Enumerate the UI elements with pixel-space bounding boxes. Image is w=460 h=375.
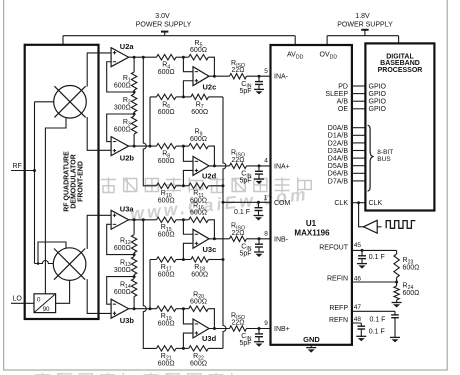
wire R8 to R9 — [176, 145, 189, 147]
node mixer Q top tap — [37, 262, 40, 265]
wire U2d minus input — [183, 146, 193, 161]
svg-text:D0A/B: D0A/B — [328, 125, 349, 132]
wire 1.8V rail — [327, 35, 399, 37]
resistor R15 600 — [157, 217, 177, 222]
node REFOUT cap tap — [361, 249, 364, 252]
wire CLK to clock buffer — [359, 203, 364, 227]
wire OE to GPIO — [352, 108, 366, 110]
ground R24 — [392, 302, 402, 304]
wire R18 to COM bus — [209, 259, 224, 261]
wire LO 90deg to mixer Q — [56, 281, 70, 304]
node Cin tap — [258, 75, 261, 78]
svg-text:D7A/B: D7A/B — [328, 178, 349, 185]
wire R16 to U3c output — [208, 220, 214, 239]
svg-text:U2c: U2c — [203, 83, 217, 92]
svg-text:0.1 F: 0.1 F — [369, 254, 385, 261]
wire RF to mixer Q (hop over LO) — [35, 261, 54, 264]
svg-text:D4A/B: D4A/B — [328, 156, 349, 163]
wire U2d output — [209, 165, 230, 167]
svg-text:U3d: U3d — [202, 334, 217, 343]
wire string top — [133, 57, 135, 72]
wire crossfeed U3a to R21 — [143, 220, 156, 349]
resistor R9 600 feedback — [189, 143, 209, 148]
wire R17 to R18 — [176, 259, 191, 261]
wire A/B to GPIO — [352, 100, 366, 102]
node COM cap tap — [257, 201, 260, 204]
svg-text:600Ω: 600Ω — [190, 136, 207, 143]
mixer I (top) — [54, 86, 87, 119]
wire R17 from U3b out — [150, 260, 157, 309]
svg-text:5: 5 — [264, 68, 268, 75]
wire R7 to COM bus — [209, 96, 224, 98]
node U3c feedback — [213, 237, 216, 240]
wire 1.8V to processor — [398, 36, 400, 44]
node U3d plus junction — [182, 347, 185, 350]
svg-text:600Ω: 600Ω — [403, 264, 420, 271]
svg-text:D2A/B: D2A/B — [328, 140, 349, 147]
node U3a out string — [133, 218, 136, 221]
phase shifter 0/90 box — [34, 294, 56, 313]
svg-text:600Ω: 600Ω — [191, 109, 208, 116]
wire U2a output — [129, 56, 157, 58]
resistor R7 600 — [191, 94, 209, 99]
svg-text:D5A/B: D5A/B — [328, 163, 349, 170]
resistor R22 600 — [189, 346, 209, 351]
svg-text:600Ω: 600Ω — [114, 126, 131, 133]
node U2b feedback tap — [133, 113, 136, 116]
node U2c plus junction — [182, 95, 185, 98]
wire D0A/B — [352, 127, 366, 129]
wire R21 to R22 — [176, 347, 189, 349]
op-amp U3c — [193, 229, 209, 248]
clock waveform symbol — [386, 221, 415, 229]
node U3c minus junction — [182, 218, 185, 221]
node Cin tap — [258, 164, 261, 167]
wire string mid2 — [133, 275, 135, 279]
resistor R14 600 — [131, 279, 136, 297]
capacitor 0.1uF COM — [258, 202, 260, 207]
wire D5A/B — [352, 165, 366, 167]
wire U3d output — [209, 328, 230, 330]
svg-text:U3a: U3a — [120, 205, 135, 214]
resistor R17 600 — [157, 257, 177, 262]
svg-text:8-BIT: 8-BIT — [377, 149, 393, 156]
capacitor Cin 5pF (U3c) — [258, 239, 260, 244]
resistor R13 300 — [131, 257, 136, 275]
1.8V supply terminal — [361, 29, 368, 31]
wire D4A/B — [352, 157, 366, 159]
wire SLEEP to GPIO — [352, 93, 366, 95]
svg-text:5pF: 5pF — [239, 340, 251, 347]
wire COM bus vertical (hops over U2d and U3d outputs) — [223, 97, 226, 349]
node U2a feedback tap — [133, 91, 136, 94]
8-bit bus brace — [368, 125, 373, 191]
wire string mid1 — [133, 253, 135, 257]
wire U3b feedback — [107, 277, 134, 305]
svg-text:REFOUT: REFOUT — [319, 244, 349, 251]
watermark clipped bottom row — [35, 374, 50, 375]
capacitor 0.1uF REFOUT — [361, 250, 363, 255]
svg-text:POWER SUPPLY: POWER SUPPLY — [136, 22, 192, 29]
svg-text:GPIO: GPIO — [369, 99, 387, 106]
wire R22 to COM bus — [208, 347, 223, 349]
wire string mid1 — [133, 90, 135, 94]
node U3a feedback tap — [133, 253, 136, 256]
svg-text:22Ω: 22Ω — [231, 320, 244, 327]
svg-text:0: 0 — [37, 297, 41, 304]
resistor Riso 22 (U3d) — [230, 326, 247, 331]
wire 3.0V to demodulator — [62, 36, 64, 45]
wire mixer Q output Q+ — [87, 215, 111, 249]
svg-text:U3b: U3b — [120, 316, 135, 325]
svg-text:PD: PD — [338, 83, 348, 90]
svg-text:DEMODULATOR: DEMODULATOR — [70, 154, 77, 209]
op-amp U2d — [193, 156, 209, 175]
wire CLK — [352, 202, 366, 204]
node U2b out string — [133, 145, 136, 148]
node COM bus R11 — [222, 184, 225, 187]
svg-text:47: 47 — [354, 304, 362, 311]
wire 3.0V to AVDD — [294, 36, 296, 45]
svg-text:REFP: REFP — [329, 305, 348, 312]
node RF split — [33, 169, 36, 172]
svg-text:600Ω: 600Ω — [191, 271, 208, 278]
resistor R4 600 — [157, 55, 177, 60]
svg-text:COM: COM — [274, 200, 291, 207]
node U3a out crossfeed — [142, 218, 145, 221]
resistor R8 600 — [157, 143, 177, 148]
node COM bus COM pin — [222, 201, 225, 204]
wire D3A/B — [352, 150, 366, 152]
wire REFN — [352, 323, 361, 326]
wire Riso to pin — [247, 165, 271, 167]
wire REFOUT — [352, 249, 397, 251]
op-amp U3b — [111, 299, 129, 318]
resistor Riso 22 (U2c) — [230, 74, 247, 79]
wire R4 to R5 — [176, 56, 189, 58]
svg-text:1.8V: 1.8V — [355, 13, 370, 20]
svg-text:REFIN: REFIN — [327, 276, 348, 283]
resistor R5 600 feedback — [189, 55, 209, 60]
svg-text:90: 90 — [43, 306, 50, 313]
svg-text:CLK: CLK — [369, 200, 383, 207]
wire R20 to U3d output — [208, 309, 214, 329]
svg-text:600Ω: 600Ω — [190, 210, 207, 217]
svg-text:600Ω: 600Ω — [114, 82, 131, 89]
svg-text:U1: U1 — [306, 219, 317, 228]
wire Riso to pin — [247, 238, 271, 240]
op-amp U2b — [111, 137, 129, 156]
wire D7A/B — [352, 180, 366, 182]
svg-text:U3c: U3c — [203, 245, 217, 254]
svg-text:600Ω: 600Ω — [158, 360, 175, 367]
svg-text:OE: OE — [338, 106, 348, 113]
svg-text:600Ω: 600Ω — [190, 299, 207, 306]
wire U2c minus input — [183, 57, 193, 71]
node U3d minus junction — [182, 307, 185, 310]
wire U2a feedback — [107, 62, 134, 92]
svg-text:U2b: U2b — [120, 153, 135, 162]
wire D1A/B — [352, 134, 366, 136]
wire R19 to R20 — [176, 308, 189, 310]
wire string bottom — [133, 134, 135, 146]
node U2b out R6 branch — [149, 145, 152, 148]
wire U2c output — [209, 75, 230, 77]
svg-text:INB+: INB+ — [274, 326, 290, 333]
wire R9 to U2d output — [208, 146, 214, 166]
svg-text:600Ω: 600Ω — [158, 158, 175, 165]
svg-text:48: 48 — [354, 316, 362, 323]
svg-text:U2d: U2d — [202, 172, 217, 181]
wire mixer I output I- — [87, 117, 111, 150]
wire U2c plus input — [183, 81, 193, 97]
node Cin tap — [258, 327, 261, 330]
wire U3d minus input — [183, 309, 193, 324]
watermark company name — [101, 179, 116, 181]
wire R5 to U2c output — [208, 57, 214, 76]
wire U2b output — [129, 145, 157, 147]
node U2c minus junction — [182, 56, 185, 59]
resistor Riso 22 (U3c) — [230, 236, 247, 241]
capacitor Cin 5pF (U3d) — [258, 329, 260, 334]
svg-text:0.1 F: 0.1 F — [370, 317, 386, 324]
svg-text:22Ω: 22Ω — [231, 230, 244, 237]
svg-text:GPIO: GPIO — [369, 106, 387, 113]
3.0V supply terminal — [161, 31, 168, 33]
wire 3.0V rail — [63, 35, 295, 37]
capacitor 0.1uF REFN — [358, 325, 366, 327]
svg-text:3.0V: 3.0V — [155, 13, 170, 20]
svg-text:INB-: INB- — [274, 236, 289, 243]
wire string bottom — [133, 297, 135, 309]
svg-text:A/B: A/B — [337, 99, 349, 106]
wire string mid2 — [133, 112, 135, 116]
wire mixer I output I+ — [87, 53, 111, 87]
svg-text:POWER SUPPLY: POWER SUPPLY — [337, 22, 393, 29]
resistor R1 600 — [131, 72, 136, 90]
wire LO 0deg to mixer I — [45, 118, 66, 294]
op-amp U2c — [193, 67, 209, 86]
svg-text:RF QUADRATURE: RF QUADRATURE — [63, 151, 70, 212]
resistor R6 600 — [157, 94, 177, 99]
svg-text:8: 8 — [264, 230, 268, 237]
wire crossfeed U2a to R10 — [143, 57, 156, 186]
wire RF input — [11, 170, 35, 172]
wire R15 to R16 — [176, 219, 189, 221]
svg-text:INA-: INA- — [274, 74, 289, 81]
svg-text:5pF: 5pF — [239, 88, 251, 95]
resistor R10 600 — [157, 183, 177, 188]
wire D2A/B — [352, 142, 366, 144]
wire REFP — [352, 311, 395, 315]
wire mixer Q top feed — [38, 242, 66, 264]
resistor R12 600 — [131, 235, 136, 253]
node U3b out string — [133, 307, 136, 310]
wire U2b feedback — [107, 114, 134, 142]
svg-text:CLK: CLK — [334, 200, 348, 207]
svg-text:LO: LO — [13, 296, 23, 303]
svg-text:5pF: 5pF — [239, 250, 251, 257]
svg-text:22Ω: 22Ω — [231, 157, 244, 164]
resistor R11 600 — [189, 183, 209, 188]
svg-text:GND: GND — [303, 335, 320, 344]
svg-text:300Ω: 300Ω — [114, 104, 131, 111]
node Cin tap — [258, 237, 261, 240]
svg-text:600Ω: 600Ω — [114, 289, 131, 296]
svg-text:GPIO: GPIO — [369, 83, 387, 90]
svg-text:SLEEP: SLEEP — [325, 91, 348, 98]
resistor R18 600 — [191, 257, 209, 262]
svg-text:D6A/B: D6A/B — [328, 171, 349, 178]
op-amp U3a — [111, 210, 129, 229]
wire U3b output — [129, 308, 157, 310]
capacitor 0.1uF REFP — [391, 314, 399, 316]
svg-text:600Ω: 600Ω — [190, 47, 207, 54]
svg-text:MAX1196: MAX1196 — [294, 229, 330, 238]
wire R11 to COM bus — [208, 185, 223, 187]
svg-text:600Ω: 600Ω — [190, 360, 207, 367]
node U2a out crossfeed — [142, 56, 145, 59]
svg-text:9: 9 — [264, 320, 268, 327]
resistor R16 600 feedback — [189, 217, 209, 222]
node COM bus R18 — [222, 258, 225, 261]
wire U2d plus input — [183, 170, 193, 185]
wire U3d plus input — [183, 333, 193, 348]
svg-text:BUS: BUS — [377, 156, 391, 163]
svg-text:300Ω: 300Ω — [114, 267, 131, 274]
wire R10 to R11 — [176, 185, 189, 187]
wire mixer Q output Q- — [87, 279, 111, 313]
wire D6A/B — [352, 172, 366, 174]
wire U3c output — [209, 238, 230, 240]
svg-text:0.1 F: 0.1 F — [369, 328, 385, 335]
resistor R2 300 — [131, 94, 136, 112]
svg-text:U2a: U2a — [120, 42, 135, 51]
svg-text:4: 4 — [264, 158, 268, 165]
resistor Riso 22 (U2d) — [230, 163, 247, 168]
node U3b out R17 branch — [149, 307, 152, 310]
resistor R21 600 — [157, 346, 177, 351]
wire RF to mixer I — [35, 101, 54, 103]
resistor R24 600 — [394, 286, 399, 300]
svg-text:D3A/B: D3A/B — [328, 148, 349, 155]
wire U3a feedback — [107, 224, 134, 254]
svg-text:600Ω: 600Ω — [403, 290, 420, 297]
wire R6 from U2b out — [150, 97, 157, 146]
svg-text:600Ω: 600Ω — [158, 321, 175, 328]
svg-text:600Ω: 600Ω — [158, 271, 175, 278]
wire LO input — [11, 302, 34, 304]
svg-text:45: 45 — [354, 242, 362, 249]
svg-text:GPIO: GPIO — [369, 91, 387, 98]
svg-text:600Ω: 600Ω — [158, 109, 175, 116]
svg-text:FRONT-END: FRONT-END — [77, 161, 84, 202]
U1 MAX1196 ADC box — [271, 45, 352, 345]
op-amp U2a — [111, 48, 129, 67]
capacitor Cin 5pF (U2c) — [258, 76, 260, 81]
digital baseband processor box — [365, 43, 434, 210]
svg-text:600Ω: 600Ω — [158, 69, 175, 76]
wire Riso to pin — [247, 75, 271, 77]
svg-text:REFN: REFN — [329, 317, 348, 324]
node U2d feedback — [213, 164, 216, 167]
wire REFIN — [352, 278, 397, 287]
resistor R3 600 — [131, 116, 136, 134]
wire 1.8V to OVDD — [326, 36, 328, 45]
wire U3c plus input — [183, 243, 193, 259]
RF quadrature demodulator front-end block — [25, 45, 99, 319]
svg-text:600Ω: 600Ω — [158, 232, 175, 239]
node CLK tap — [357, 201, 360, 204]
svg-text:D1A/B: D1A/B — [328, 133, 349, 140]
op-amp U3d — [193, 319, 209, 338]
GND pin ground — [310, 345, 312, 348]
svg-text:INA+: INA+ — [274, 164, 290, 171]
wire R6 to R7 — [176, 96, 191, 98]
wire string top — [133, 220, 135, 235]
node U3d feedback — [213, 327, 216, 330]
svg-text:0.1 F: 0.1 F — [234, 209, 250, 216]
wire U3a output — [129, 219, 157, 221]
svg-text:1: 1 — [264, 194, 268, 201]
svg-text:5pF: 5pF — [239, 178, 251, 185]
resistor R19 600 — [157, 306, 177, 311]
clock buffer — [364, 220, 378, 233]
wire RF bus vertical — [34, 102, 36, 264]
resistor R23 600 — [396, 250, 398, 254]
mixer Q (bottom) — [53, 248, 86, 281]
capacitor Cin 5pF (U2d) — [258, 166, 260, 171]
svg-text:600Ω: 600Ω — [158, 198, 175, 205]
svg-text:RF: RF — [13, 163, 22, 170]
node U3c plus junction — [182, 258, 185, 261]
svg-text:600Ω: 600Ω — [114, 245, 131, 252]
node REFIN junction — [395, 281, 398, 284]
svg-text:PROCESSOR: PROCESSOR — [378, 67, 423, 74]
resistor R20 600 feedback — [189, 306, 209, 311]
node U3b feedback tap — [133, 275, 136, 278]
node U2d minus junction — [182, 145, 185, 148]
node U2a out string — [133, 56, 136, 59]
wire COM pin — [223, 201, 271, 203]
svg-text:22Ω: 22Ω — [231, 67, 244, 74]
wire Riso to pin — [247, 328, 271, 330]
wire PD to GPIO — [352, 85, 366, 87]
node U2c feedback — [213, 75, 216, 78]
wire U3c minus input — [183, 220, 193, 234]
node U2d plus junction — [182, 184, 185, 187]
